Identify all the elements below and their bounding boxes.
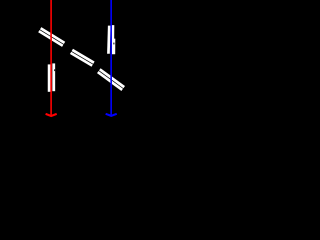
rod B (diagonal double-bar, center) [71, 50, 94, 66]
rod E (vertical double-bar on blue worldline) [107, 25, 115, 54]
red arrowhead (down) [46, 114, 57, 116]
rod D (vertical double-bar on red worldline) [49, 63, 54, 91]
blue arrowhead (down) [106, 114, 117, 116]
rod A (diagonal double-bar, upper left, crossing red worldline) [39, 28, 65, 46]
notch artifact on rod D right stroke [54, 69, 55, 71]
red worldline [50, 0, 52, 115]
rod C (diagonal double-bar, lower right, crossing blue worldline) [98, 69, 124, 90]
blue worldline [110, 0, 112, 115]
notch artifact on rod E right stroke [113, 43, 114, 45]
